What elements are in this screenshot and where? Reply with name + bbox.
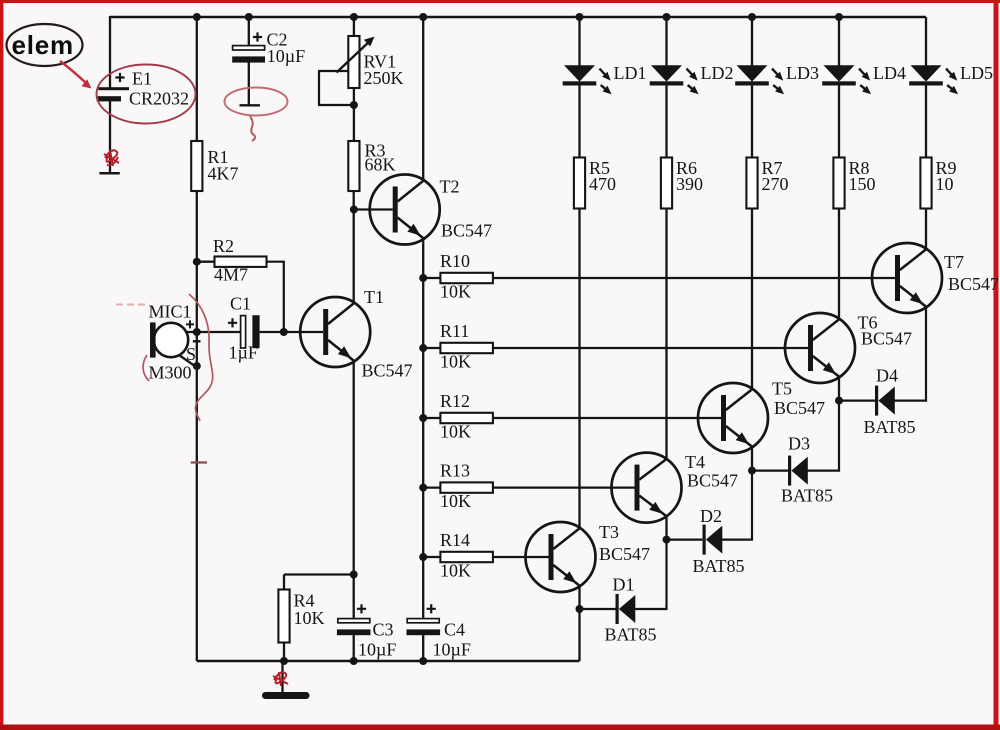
annotation ellipse around E1 (97, 65, 196, 124)
annotation squiggle below C2 (250, 116, 255, 141)
resistor R5 (574, 158, 585, 209)
LED LD2 (651, 65, 682, 81)
wire R4 top (283, 575, 285, 590)
annotation arrowhead (82, 79, 92, 88)
junction C3 ground (350, 657, 358, 665)
wire MIC1 to C1 (186, 331, 241, 333)
svg-text:BC547: BC547 (948, 274, 999, 294)
junction top rail 5 (576, 13, 584, 21)
resistor R11 (440, 343, 493, 353)
capacitor C2 bottom plate (232, 56, 265, 62)
transistor T1 (300, 297, 370, 367)
label E1 plus (115, 73, 124, 82)
diode D3 (788, 456, 791, 486)
ground symbol main (262, 692, 310, 699)
capacitor C2 top plate (233, 46, 265, 50)
svg-text:C4: C4 (444, 620, 465, 640)
junction R14 column (419, 553, 427, 561)
svg-text:BC547: BC547 (774, 398, 825, 418)
resistor R1 (191, 141, 202, 191)
wire D2 row right (721, 471, 752, 540)
svg-text:390: 390 (676, 174, 703, 194)
annotation scribble at E1 ground (104, 150, 119, 166)
wire R10 row left (423, 277, 440, 279)
capacitor C4 bottom plate (407, 629, 441, 635)
LED LD5 (911, 65, 942, 81)
wire bottom ground rail (197, 660, 580, 663)
svg-text:LD3: LD3 (786, 63, 819, 83)
wire C2 open stub (240, 104, 261, 106)
wire D2 row left (667, 538, 703, 540)
transistor T5 (698, 383, 768, 453)
svg-text:LD4: LD4 (873, 63, 906, 83)
svg-text:R10: R10 (440, 251, 470, 271)
wire T4 emitter (665, 516, 667, 540)
diode D1 (616, 594, 619, 624)
potentiometer RV1 wiper arrowhead (364, 37, 375, 47)
svg-text:C1: C1 (230, 294, 251, 314)
capacitor C3 top plate (338, 619, 370, 623)
LED LD1 (564, 65, 595, 81)
annotation arrow elem to E1 (60, 61, 86, 83)
wire D3 row right (807, 401, 839, 471)
microphone MIC1 body (154, 323, 188, 357)
annotation pink dashes near MIC1 (116, 304, 147, 306)
junction RV1 wiper (350, 101, 358, 109)
wire LD2 cathode to R6 (665, 85, 667, 157)
node T6 emitter D4 (835, 397, 843, 405)
red border frame (0, 0, 1000, 3)
svg-text:BAT85: BAT85 (781, 486, 833, 506)
junction R13 column (419, 484, 427, 492)
wire LD5 cathode to R9 (925, 85, 927, 157)
svg-text:LD2: LD2 (701, 63, 734, 83)
transistor T2 (370, 175, 440, 245)
wire R1 column upper (196, 17, 198, 141)
wire D4 row right (894, 306, 926, 400)
svg-text:E1: E1 (132, 69, 152, 89)
wire D4 row left (839, 399, 875, 401)
wire R4 bottom (283, 643, 285, 662)
svg-text:470: 470 (589, 174, 616, 194)
node T5 emitter D3 (748, 467, 756, 475)
junction top rail 8 (835, 13, 843, 21)
wire R2 right drop (267, 262, 284, 332)
annotation scribble at main ground (273, 672, 288, 686)
wire C4 bottom (422, 635, 424, 661)
svg-text:BC547: BC547 (861, 329, 912, 349)
svg-text:10µF: 10µF (358, 640, 396, 660)
wire LD2 anode (665, 17, 667, 66)
node T4 emitter D2 (663, 536, 671, 544)
svg-text:BC547: BC547 (687, 471, 738, 491)
svg-text:R13: R13 (440, 461, 470, 481)
junction T2 base (350, 206, 358, 214)
svg-text:10µF: 10µF (267, 46, 305, 66)
svg-text:LD1: LD1 (614, 63, 647, 83)
resistor R12 (440, 413, 493, 423)
wire R10 row right to base (493, 277, 895, 279)
wire RV1 top (353, 17, 355, 36)
label C3 plus (357, 604, 366, 613)
capacitor C1 left plate (241, 316, 246, 348)
wire T2 collector column (422, 17, 424, 181)
wire R12 row left (423, 417, 440, 419)
wire top supply rail (110, 16, 926, 19)
svg-text:4K7: 4K7 (208, 164, 239, 184)
svg-text:1µF: 1µF (229, 343, 258, 363)
potentiometer RV1 (348, 36, 359, 88)
svg-text:R11: R11 (440, 321, 469, 341)
svg-text:T7: T7 (944, 252, 964, 272)
wire R11 row left (423, 347, 440, 349)
resistor R3 (348, 141, 359, 191)
svg-text:T3: T3 (599, 522, 619, 542)
battery E1 negative plate (97, 96, 121, 101)
wire R11 row right to base (493, 347, 808, 349)
svg-text:10K: 10K (440, 561, 471, 581)
label MIC1 plus (186, 320, 194, 328)
wire R9 to T7 collector (925, 209, 927, 250)
svg-text:D4: D4 (876, 366, 898, 386)
svg-text:BAT85: BAT85 (864, 417, 916, 437)
wire battery column bottom (109, 101, 111, 173)
resistor R13 (440, 482, 493, 492)
svg-text:T4: T4 (685, 452, 705, 472)
junction top rail 3 (350, 13, 358, 21)
wire LD1 cathode to R5 (578, 85, 580, 157)
svg-text:R14: R14 (440, 530, 470, 550)
resistor R14 (440, 552, 493, 562)
wire C2 top (248, 17, 250, 46)
wire LD3 cathode to R7 (751, 85, 753, 157)
annotation elem ellipse (7, 24, 83, 66)
svg-text:10: 10 (936, 174, 954, 194)
resistor R4 (278, 590, 289, 643)
wire R14 row left (423, 556, 440, 558)
wire T1 emitter column (353, 361, 355, 575)
resistor R8 (833, 158, 844, 209)
transistor T4 (612, 453, 682, 523)
wire C3 bottom (353, 635, 355, 661)
capacitor C1 right plate (252, 315, 259, 348)
ground E1 terminal bar (99, 172, 119, 175)
wire R12 row right to base (493, 417, 721, 419)
svg-text:150: 150 (849, 174, 876, 194)
diode D4 (875, 386, 878, 416)
svg-text:250K: 250K (364, 68, 404, 88)
junction R4 ground (280, 657, 288, 665)
wire LD4 cathode to R8 (838, 85, 840, 157)
svg-text:68K: 68K (365, 155, 396, 175)
svg-text:10K: 10K (440, 422, 471, 442)
wire R13 row left (423, 486, 440, 488)
svg-text:R2: R2 (213, 236, 234, 256)
resistor R10 (440, 273, 493, 283)
label C4 plus (427, 604, 436, 613)
annotation curve around MIC1 (143, 294, 213, 421)
junction R4 C3 (350, 571, 358, 579)
svg-text:10K: 10K (440, 352, 471, 372)
svg-text:CR2032: CR2032 (129, 89, 189, 109)
junction top rail 1 (193, 13, 201, 21)
svg-text:BC547: BC547 (362, 361, 413, 381)
node T3 emitter D1 (576, 605, 584, 613)
wire R8 to T6 collector (838, 209, 840, 320)
potentiometer RV1 wiper arrow (337, 40, 372, 73)
wire R13 row right to base (493, 486, 635, 488)
svg-text:C3: C3 (373, 620, 394, 640)
wire LD1 anode (578, 17, 580, 66)
wire D3 row left (752, 469, 788, 471)
transistor T3 (526, 522, 596, 592)
junction MIC1 shield (193, 362, 201, 370)
capacitor C3 bottom plate (337, 629, 371, 635)
wire R14 row right to base (493, 556, 549, 558)
junction R2 left (193, 258, 201, 266)
svg-text:10K: 10K (294, 608, 325, 628)
svg-text:BAT85: BAT85 (693, 556, 745, 576)
junction R11 column (419, 344, 427, 352)
junction top rail 4 (419, 13, 427, 21)
junction C1 R2 (280, 328, 288, 336)
wire LD3 anode (751, 17, 753, 66)
svg-text:D2: D2 (700, 506, 722, 526)
wire RV1 to R3 (353, 88, 355, 141)
wire T5 emitter (751, 446, 753, 470)
svg-text:10µF: 10µF (433, 640, 471, 660)
diode D2 (703, 525, 706, 555)
svg-text:MIC1: MIC1 (149, 302, 192, 322)
label C2 plus (253, 32, 262, 41)
annotation red dash on column (191, 461, 207, 463)
wire RV1 wiper bracket (319, 71, 354, 105)
battery E1 positive plate (98, 87, 129, 90)
junction top rail 6 (663, 13, 671, 21)
wire ground stem (281, 661, 283, 692)
wire T6 emitter (838, 376, 840, 400)
svg-text:T2: T2 (440, 177, 460, 197)
resistor R9 (920, 158, 931, 209)
svg-text:M300: M300 (149, 363, 192, 383)
junction R10 column (419, 274, 427, 282)
svg-text:BAT85: BAT85 (605, 625, 657, 645)
svg-text:BC547: BC547 (441, 221, 492, 241)
junction C4 ground (419, 657, 427, 665)
wire T3 emitter to rail (578, 585, 580, 661)
junction R12 column (419, 414, 427, 422)
svg-text:T5: T5 (772, 379, 792, 399)
wire MIC1 shield diagonal (179, 355, 196, 367)
svg-text:elem: elem (12, 30, 74, 60)
wire T2 emitter / R10-R14 column (422, 238, 424, 619)
wire D1 row right (635, 540, 667, 609)
svg-text:R12: R12 (440, 391, 470, 411)
wire LD5 anode (925, 17, 927, 66)
wire C3 top (353, 575, 355, 619)
wire LD4 anode (838, 17, 840, 66)
transistor T7 (872, 243, 942, 313)
LED LD4 (824, 65, 855, 81)
wire R4 top row (284, 573, 354, 575)
svg-text:270: 270 (762, 174, 789, 194)
svg-text:S: S (186, 344, 196, 364)
wire D1 row left (580, 608, 616, 610)
label C1 plus (228, 318, 237, 327)
resistor R2 (215, 257, 267, 267)
wire T2 base (354, 208, 393, 210)
svg-text:D3: D3 (788, 434, 810, 454)
label MIC1 minus (193, 340, 201, 342)
junction top rail 2 (245, 13, 253, 21)
wire R3 to T1 collector (353, 191, 355, 303)
svg-text:LD5: LD5 (960, 63, 993, 83)
svg-text:D1: D1 (613, 575, 635, 595)
wire C2 bottom (248, 62, 250, 105)
LED LD3 (737, 65, 768, 81)
wire R5 to T3 collector (578, 209, 580, 529)
microphone MIC1 element bar (150, 322, 156, 357)
svg-text:10K: 10K (440, 491, 471, 511)
capacitor C4 top plate (407, 619, 439, 623)
junction MIC1 plus (193, 328, 201, 336)
wire R7 to T5 collector (751, 209, 753, 390)
resistor R6 (661, 158, 672, 209)
svg-text:T1: T1 (364, 287, 384, 307)
junction top rail 7 (748, 13, 756, 21)
wire battery column top (109, 16, 111, 89)
svg-text:BC547: BC547 (599, 544, 650, 564)
wire R2 left (197, 261, 215, 263)
svg-text:10K: 10K (440, 282, 471, 302)
wire C1 to T1 base (260, 331, 324, 333)
svg-text:4M7: 4M7 (214, 265, 248, 285)
wire R6 to T4 collector (665, 209, 667, 460)
resistor R7 (746, 158, 757, 209)
transistor T6 (785, 313, 855, 383)
wire R1 column lower (196, 191, 198, 661)
annotation ellipse below C2 (225, 88, 288, 116)
